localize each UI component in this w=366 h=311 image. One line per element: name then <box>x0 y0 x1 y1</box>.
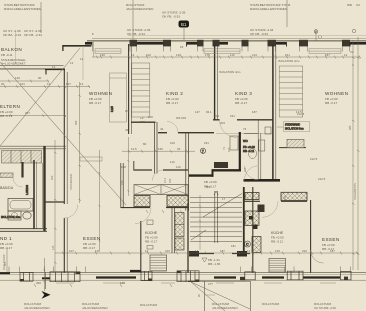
pier b2 wallB junction <box>213 40 220 47</box>
shaft door jamb marks <box>249 216 253 220</box>
corridor north wall stub <box>133 161 135 171</box>
bad wall east inner line <box>42 163 44 228</box>
kueche1 east wall double <box>172 207 175 253</box>
G-TEXTURE <box>1 29 356 266</box>
dim vertical mid <box>127 137 129 196</box>
svg-text:125: 125 <box>120 281 125 285</box>
svg-text:ISOLATION 4cm: ISOLATION 4cm <box>1 215 20 219</box>
bath2 partition <box>258 121 261 181</box>
sill bar 3 <box>187 42 197 45</box>
kind2 west cabinet ladder <box>132 63 150 117</box>
dim row eltern <box>0 115 66 117</box>
entry landing line <box>204 294 215 296</box>
stair south piers dark <box>189 251 199 257</box>
shaft hatched lower <box>252 237 261 253</box>
svg-text:17: 17 <box>222 197 226 201</box>
balcony left note line <box>15 31 17 64</box>
essen2 door arc <box>311 250 324 263</box>
corridor door arc left <box>64 205 78 219</box>
chimney block right hatched <box>281 192 307 200</box>
kueche1 east wall <box>187 203 189 273</box>
G-LEFT <box>0 31 126 232</box>
plinth A outlined <box>20 272 33 282</box>
pier b <box>163 40 171 47</box>
kueche1 door arc <box>135 208 151 224</box>
bath2 door arcs <box>245 166 259 180</box>
svg-text:RB -0.17: RB -0.17 <box>83 246 95 250</box>
svg-text:RB -0.11: RB -0.11 <box>243 149 255 153</box>
svg-text:100: 100 <box>283 195 287 200</box>
separator line col1 <box>40 2 42 33</box>
svg-text:C: C <box>246 243 249 247</box>
svg-text:12: 12 <box>47 82 51 86</box>
svg-text:108: 108 <box>121 165 126 169</box>
G-MIDWALLS <box>80 44 341 211</box>
svg-text:203: 203 <box>214 114 219 118</box>
wc2 fixtures <box>259 140 265 151</box>
steigwand leader <box>277 126 284 128</box>
separator line col3 <box>286 0 288 27</box>
top window glass line <box>87 39 366 41</box>
svg-text:RB -0.11: RB -0.11 <box>271 240 283 244</box>
svg-text:12: 12 <box>52 65 56 69</box>
svg-text:RB -0.17: RB -0.17 <box>145 240 157 244</box>
sill bar 4 <box>276 42 286 45</box>
wall kind2-kind3 double <box>214 44 216 120</box>
svg-text:12: 12 <box>344 53 348 57</box>
dim row under top wall <box>92 56 360 58</box>
svg-text:5.2/5: 5.2/5 <box>110 106 114 112</box>
svg-text:231: 231 <box>230 114 235 118</box>
kueche1 west wall <box>140 221 142 273</box>
kueche1 tiny fixtures <box>147 220 153 225</box>
svg-text:RB -1.36: RB -1.36 <box>208 262 220 266</box>
bad east wall double <box>33 160 35 229</box>
furniture sideboard wohnen <box>80 157 102 161</box>
sill bar 1 <box>85 42 92 45</box>
kueche2 counter stripes <box>269 259 286 273</box>
svg-text:RB -0.17: RB -0.17 <box>0 114 12 118</box>
kueche1 counter stripes <box>150 255 167 271</box>
kind2 door arc <box>167 122 178 133</box>
svg-text:ROLLSTURZ: ROLLSTURZ <box>262 302 279 306</box>
svg-text:12: 12 <box>80 82 84 86</box>
entry slab line <box>188 280 250 282</box>
svg-text:203: 203 <box>50 175 54 180</box>
left edge vertical dim <box>6 248 8 272</box>
svg-text:175: 175 <box>205 53 210 57</box>
bad hatched wall segment <box>0 173 13 177</box>
wall kind3-wohnen2 double <box>272 44 274 181</box>
svg-text:ND 1: ND 1 <box>0 236 12 241</box>
svg-text:KÜCHE: KÜCHE <box>271 231 284 235</box>
svg-text:187: 187 <box>252 110 257 114</box>
svg-text:ELTERN: ELTERN <box>0 104 20 109</box>
svg-text:102: 102 <box>146 53 151 57</box>
kind1 north wall double <box>0 229 47 232</box>
svg-text:73: 73 <box>243 127 247 131</box>
svg-text:125: 125 <box>176 53 181 57</box>
svg-text:12.5: 12.5 <box>131 147 137 151</box>
plinth D outlined <box>177 271 199 283</box>
top facade outer line <box>128 35 366 37</box>
svg-text:14: 14 <box>195 249 199 253</box>
pier d <box>242 40 249 47</box>
svg-text:WC: WC <box>243 139 248 143</box>
bad wall stub dark <box>21 162 23 178</box>
svg-text:RAFFLAMELLENSTOREN: RAFFLAMELLENSTOREN <box>250 7 287 11</box>
dim row balcony second <box>0 86 90 88</box>
svg-text:161: 161 <box>285 53 290 57</box>
svg-text:ROLLSTURZ: ROLLSTURZ <box>140 303 157 307</box>
bottom sill bar small kind1 <box>42 277 50 279</box>
svg-text:RB -0.17: RB -0.17 <box>166 101 178 105</box>
pier g <box>342 40 350 47</box>
kind2 south wall <box>158 132 214 134</box>
svg-text:101: 101 <box>20 82 25 86</box>
stair east wall dark <box>243 187 245 255</box>
bath2 south dark wall corner <box>244 179 281 182</box>
pier a <box>130 40 138 47</box>
svg-text:485: 485 <box>348 125 352 130</box>
separator line col2 <box>132 0 134 40</box>
svg-text:231: 231 <box>204 141 209 145</box>
svg-text:310: 310 <box>165 249 170 253</box>
svg-text:JALOUSIEKASTEN: JALOUSIEKASTEN <box>82 306 108 310</box>
bottom sill bars <box>0 273 340 277</box>
svg-text:B1: B1 <box>181 22 187 27</box>
svg-text:RB -0.17: RB -0.17 <box>235 101 247 105</box>
svg-text:12: 12 <box>70 61 74 65</box>
flur west wall vertical <box>154 122 157 174</box>
marker circle 7 <box>200 148 205 153</box>
svg-text:ROLLSTURZ: ROLLSTURZ <box>2 254 6 270</box>
svg-text:100: 100 <box>243 167 247 172</box>
svg-text:212.5: 212.5 <box>318 177 326 181</box>
eltern north wall thick <box>45 68 65 70</box>
svg-text:W3: W3 <box>125 109 130 113</box>
svg-text:R: R <box>315 30 317 34</box>
svg-text:KIND 3: KIND 3 <box>235 91 252 96</box>
svg-text:OK FB. -2.91: OK FB. -2.91 <box>24 33 42 37</box>
svg-text:JALOUSIEKASTEN: JALOUSIEKASTEN <box>24 306 50 310</box>
svg-text:187: 187 <box>325 53 330 57</box>
plinth B outlined wide <box>50 272 80 283</box>
corridor wall left segment <box>45 201 65 203</box>
dim vertical left inner <box>54 140 56 272</box>
svg-text:STANDROHR: STANDROHR <box>69 174 73 190</box>
dim row balcony <box>0 80 49 82</box>
svg-text:RB -0.17: RB -0.17 <box>89 101 101 105</box>
black arrow A <box>42 291 51 299</box>
eltern floor slab edge double <box>0 146 66 149</box>
corridor south wall segments <box>121 207 188 209</box>
svg-text:ISOLATION 5cm: ISOLATION 5cm <box>285 128 304 131</box>
corridor2 door jamb dark <box>258 205 265 213</box>
svg-text:30: 30 <box>1 82 5 86</box>
svg-text:125: 125 <box>95 249 100 253</box>
svg-text:485: 485 <box>74 120 78 125</box>
crease diagonal long <box>0 62 126 205</box>
svg-text:125: 125 <box>51 245 55 250</box>
radiators under windows <box>95 49 341 54</box>
marker circle C <box>245 241 251 247</box>
svg-text:18x: 18x <box>231 244 236 248</box>
window reveal pairs above bottom piers <box>9 267 351 273</box>
svg-text:203: 203 <box>140 120 145 124</box>
kueche1 top ticks <box>146 210 182 213</box>
svg-text:JALOUSIEKASTEN: JALOUSIEKASTEN <box>212 306 238 310</box>
svg-text:BAD/DU: BAD/DU <box>0 186 14 190</box>
stair run diagonal <box>203 194 242 218</box>
svg-text:JALOUSIEKASTEN: JALOUSIEKASTEN <box>126 7 153 11</box>
kueche2 door arc <box>262 201 278 217</box>
svg-text:80: 80 <box>143 142 147 146</box>
dim vertical wohnen <box>79 82 81 203</box>
top row extra ticks <box>100 56 336 59</box>
corridor2 south wall <box>244 200 307 202</box>
svg-text:212.5: 212.5 <box>297 112 305 116</box>
svg-text:107: 107 <box>69 249 74 253</box>
svg-text:203: 203 <box>220 121 225 125</box>
svg-text:RB -0.17: RB -0.17 <box>0 246 12 250</box>
svg-text:33: 33 <box>177 147 181 151</box>
stair rail arrow <box>214 191 218 195</box>
window reveal main wall left end <box>93 41 95 57</box>
svg-text:14: 14 <box>247 249 251 253</box>
wohnen2 west cabinet ladder <box>279 66 303 117</box>
marker B1 leader line <box>183 28 185 40</box>
svg-text:RB -0.17: RB -0.17 <box>325 101 337 105</box>
svg-text:107: 107 <box>66 82 71 86</box>
wohnen pocket wall <box>131 121 156 123</box>
svg-text:BALKON: BALKON <box>1 47 22 52</box>
svg-text:253: 253 <box>168 178 172 183</box>
svg-text:W2: W2 <box>206 185 211 189</box>
balcony right edge <box>82 46 84 80</box>
kueche2 west wall <box>252 187 254 273</box>
top window inner line <box>87 41 366 43</box>
svg-text:STAHLBETON: STAHLBETON <box>353 183 357 200</box>
wall stub left of facade <box>63 45 91 47</box>
chimney block 1 hatched <box>134 196 150 207</box>
bad door arc <box>13 178 23 188</box>
entry stair diagonals <box>191 282 250 311</box>
svg-text:WD: WD <box>347 3 353 7</box>
G-DIMS <box>0 37 361 287</box>
svg-text:187: 187 <box>220 249 225 253</box>
dim line at col3 with circle <box>315 29 317 41</box>
flur dim line <box>122 150 195 152</box>
svg-text:360: 360 <box>36 281 41 285</box>
svg-text:STEIGWAND: STEIGWAND <box>285 124 300 127</box>
svg-text:OK BA. -2.91: OK BA. -2.91 <box>3 33 22 37</box>
kind3 south wall <box>213 119 273 121</box>
window reveal pairs below top piers <box>92 46 349 51</box>
svg-text:84.1: 84.1 <box>206 110 212 114</box>
corridor1 door arc <box>153 170 164 181</box>
sill end caps <box>92 42 350 47</box>
svg-text:WOHNEN: WOHNEN <box>325 91 348 96</box>
sill bar 5 <box>350 42 366 45</box>
bottom row extra ticks <box>75 252 342 255</box>
svg-text:FB +0.00: FB +0.00 <box>204 180 217 184</box>
bath1 west wall double <box>186 133 189 211</box>
svg-text:100: 100 <box>227 147 231 152</box>
marker B1 black tag <box>179 21 190 28</box>
kueche2 east wall <box>310 200 312 273</box>
G-LOWER <box>0 187 366 311</box>
svg-text:RAFFLAMELLENSTOREN: RAFFLAMELLENSTOREN <box>4 7 41 11</box>
svg-text:ESSEN: ESSEN <box>322 237 340 242</box>
svg-text:42: 42 <box>160 127 164 131</box>
bath1 fixtures <box>214 162 228 168</box>
bath1 east dark wall <box>239 132 241 171</box>
washbasin <box>8 211 21 220</box>
svg-text:18: 18 <box>180 45 184 49</box>
svg-text:7: 7 <box>202 149 204 153</box>
plinth C outlined <box>141 271 152 281</box>
flur west wall lower <box>121 163 123 208</box>
svg-text:KIND 2: KIND 2 <box>166 91 183 96</box>
svg-text:42: 42 <box>125 128 129 132</box>
crease diagonal short <box>0 48 80 146</box>
bottom window inner line <box>0 273 366 275</box>
wardrobe hatched band <box>2 151 42 164</box>
stair center rail <box>215 191 218 243</box>
shaft hatched upper <box>245 211 259 226</box>
wardrobe dividers <box>11 151 31 164</box>
bath1 south dark wall step <box>189 174 214 176</box>
chimney block right small <box>245 193 259 200</box>
duct shaft hatched strip <box>175 213 184 237</box>
svg-text:ISOLATION 4cm: ISOLATION 4cm <box>219 70 241 74</box>
corridor ceiling line <box>216 133 272 135</box>
svg-text:WOHNEN: WOHNEN <box>89 91 112 96</box>
svg-text:110: 110 <box>176 165 181 169</box>
corridor north wall <box>134 169 189 171</box>
svg-text:12: 12 <box>131 53 135 57</box>
dim marks below bottom wall <box>34 284 172 287</box>
svg-text:100: 100 <box>148 115 153 119</box>
pier e <box>268 40 277 47</box>
svg-text:ISOLATION 4cm: ISOLATION 4cm <box>278 59 300 63</box>
eltern west wall double <box>63 70 65 273</box>
stair dim vertical <box>199 195 201 250</box>
svg-text:120: 120 <box>15 76 20 80</box>
stair south wall <box>190 253 250 255</box>
svg-text:UK STURZ -2.06: UK STURZ -2.06 <box>314 306 336 310</box>
top facade face line <box>92 37 366 39</box>
garderobe xbox row <box>134 185 188 195</box>
wall wohnen-kind2 double <box>128 44 130 134</box>
svg-text:187: 187 <box>330 249 335 253</box>
svg-text:150: 150 <box>158 147 163 151</box>
essen vertical dim <box>99 150 101 250</box>
svg-text:ESSEN: ESSEN <box>83 236 101 241</box>
svg-text:14: 14 <box>145 249 149 253</box>
svg-text:110: 110 <box>170 160 175 164</box>
svg-text:V2: V2 <box>356 3 360 7</box>
bath2 thin south wall <box>279 147 306 149</box>
thresholds below bottom wall <box>56 282 336 284</box>
svg-text:KÜCHE: KÜCHE <box>145 231 158 235</box>
svg-text:1.35/203: 1.35/203 <box>25 184 29 195</box>
kind3 door arc <box>220 120 238 138</box>
svg-text:90: 90 <box>38 76 42 80</box>
svg-text:12: 12 <box>80 57 84 61</box>
svg-text:116: 116 <box>230 53 235 57</box>
bath2 hatch blob <box>287 139 304 147</box>
pier f <box>299 40 308 47</box>
G-TOPWALL <box>45 36 366 273</box>
svg-text:120: 120 <box>100 53 105 57</box>
svg-text:100: 100 <box>170 141 175 145</box>
svg-text:H=1.00 VERZINKT: H=1.00 VERZINKT <box>1 62 26 66</box>
svg-text:V2: V2 <box>350 50 354 54</box>
svg-text:W3 203: W3 203 <box>176 116 186 120</box>
pier c <box>197 40 204 47</box>
steigwand note box <box>284 122 310 132</box>
G-TOPTEXT <box>3 0 360 41</box>
section dim line kind1 wall <box>43 258 45 291</box>
svg-text:125: 125 <box>275 249 280 253</box>
svg-text:277: 277 <box>208 282 213 286</box>
bottom sill bar kueche1 left <box>130 270 141 272</box>
stair west treads <box>190 198 242 242</box>
bad wall east thick <box>43 146 45 232</box>
wc2 north line <box>244 133 258 135</box>
svg-text:147: 147 <box>195 110 200 114</box>
balcony parapet double line <box>0 64 64 66</box>
sill bar 2 <box>130 42 163 45</box>
chimney block 2 hatched <box>167 196 188 207</box>
wc <box>23 212 31 219</box>
svg-text:123: 123 <box>252 53 257 57</box>
svg-text:212.5: 212.5 <box>310 157 318 161</box>
entry stair verticals <box>205 281 251 311</box>
wohnen wardrobe outline <box>110 73 127 122</box>
bottom wall face lines <box>0 272 366 274</box>
svg-text:310: 310 <box>302 249 307 253</box>
dim vertical right pair <box>352 40 354 270</box>
bathtub <box>8 199 33 212</box>
dim row above bottom wall <box>55 252 358 254</box>
svg-text:307: 307 <box>25 111 30 115</box>
svg-text:FB -0.11: FB -0.11 <box>1 53 13 57</box>
svg-text:180: 180 <box>120 180 124 185</box>
svg-text:OK FB. -0.91: OK FB. -0.91 <box>162 15 180 19</box>
svg-text:15.2: 15.2 <box>163 177 167 183</box>
